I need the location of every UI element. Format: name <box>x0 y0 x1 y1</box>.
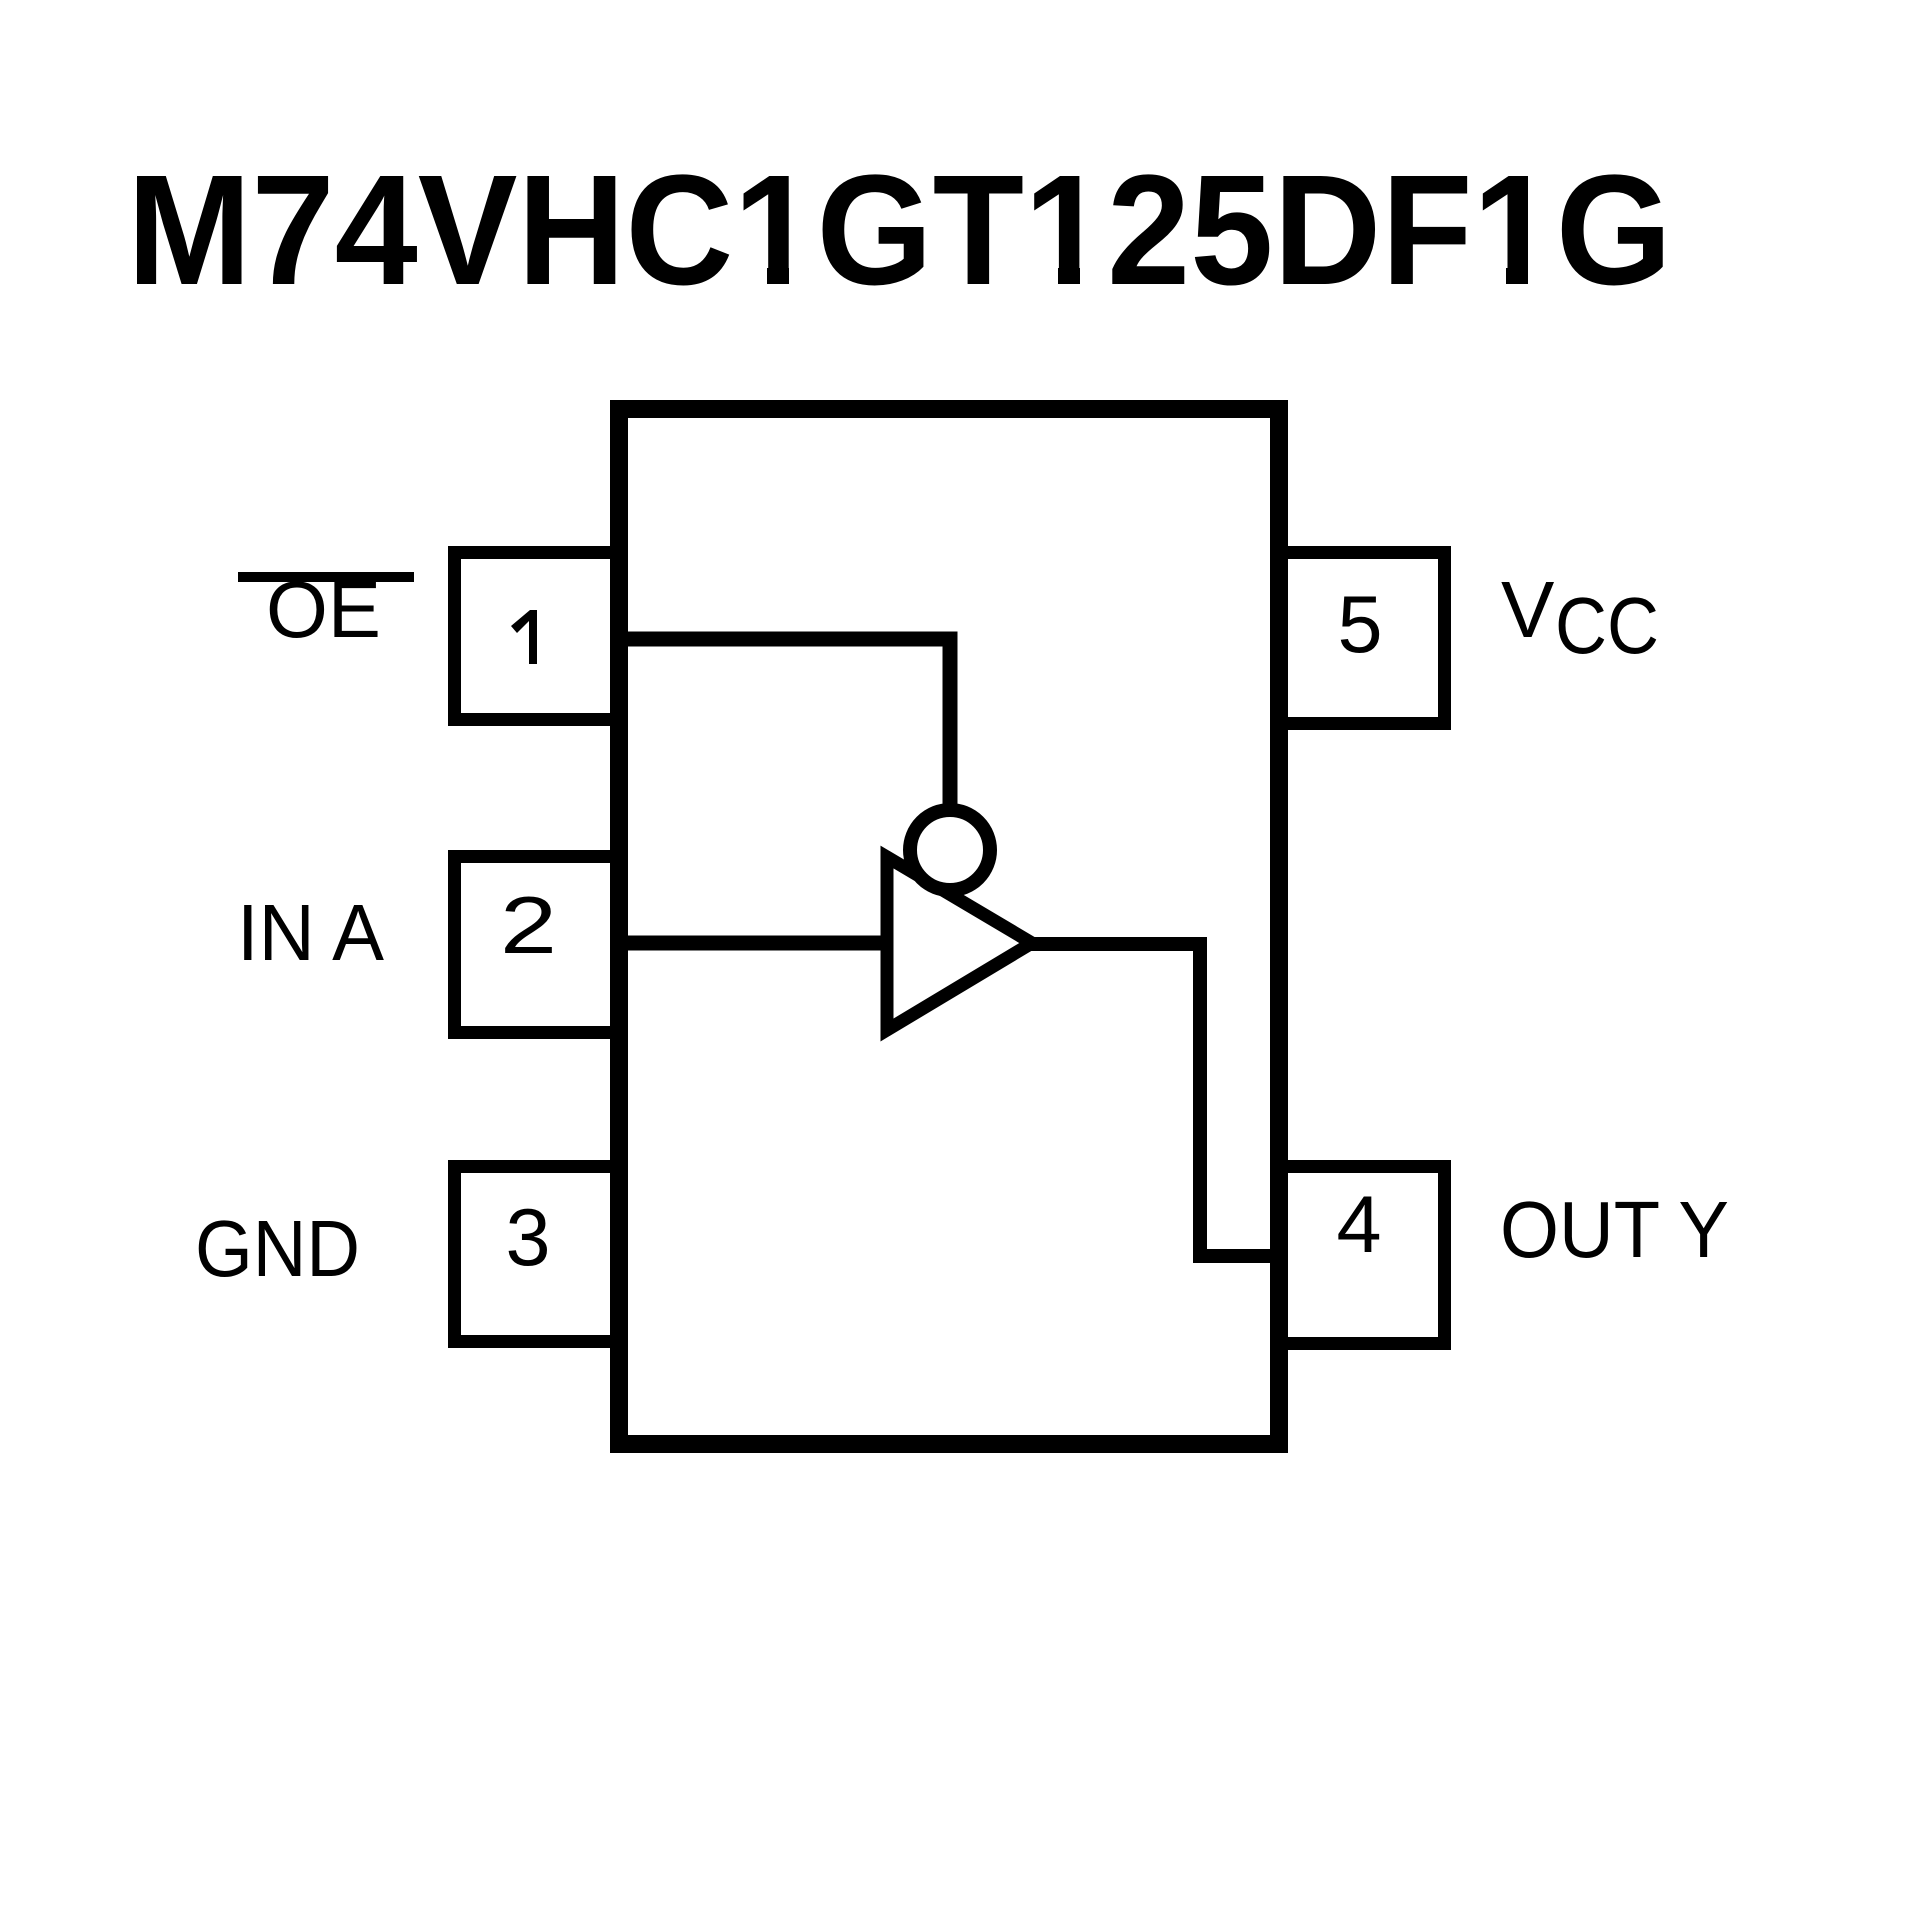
svg-text:OUT Y: OUT Y <box>1500 1185 1729 1274</box>
svg-text:5: 5 <box>1337 580 1382 670</box>
svg-text:4: 4 <box>1336 1180 1381 1270</box>
svg-text:GND: GND <box>195 1204 360 1293</box>
svg-text:V: V <box>1501 565 1555 654</box>
svg-text:OE: OE <box>266 565 381 654</box>
svg-text:3: 3 <box>505 1193 550 1283</box>
svg-text:M74VHC1GT125DF1G: M74VHC1GT125DF1G <box>127 143 1672 318</box>
svg-text:CC: CC <box>1555 581 1659 670</box>
svg-text:IN A: IN A <box>237 888 385 977</box>
svg-text:2: 2 <box>500 881 557 971</box>
